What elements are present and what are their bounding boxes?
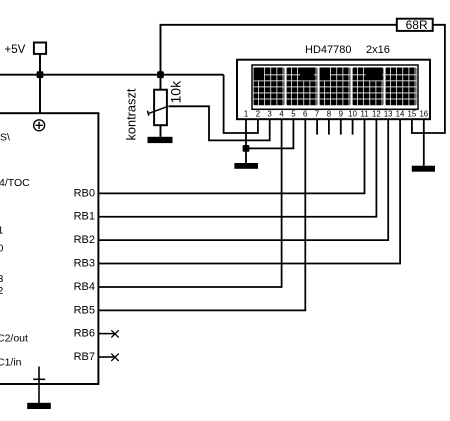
svg-text:HD47780: HD47780 bbox=[305, 44, 351, 56]
svg-text:RB3: RB3 bbox=[74, 257, 95, 269]
LCD inner display frame bbox=[252, 65, 418, 109]
svg-text:RB0: RB0 bbox=[74, 187, 95, 199]
chip power pin circle-plus symbol bbox=[34, 120, 45, 131]
wire +5V box down to chip Vdd bbox=[39, 54, 41, 113]
ground below chip bbox=[27, 403, 51, 409]
power symbol +5V box bbox=[34, 43, 46, 54]
chip Vss pin stem and bar bbox=[33, 367, 45, 404]
svg-text:RB1: RB1 bbox=[74, 211, 95, 223]
wire RB3 to LCD pin 14 bbox=[99, 119, 400, 263]
potentiometer P1 10k bbox=[147, 75, 167, 137]
svg-text:RB6: RB6 bbox=[74, 328, 95, 340]
wire 68R to LCD pin 15 bbox=[412, 25, 445, 133]
junction on rail at pot top bbox=[157, 71, 164, 78]
microcontroller U1 box bbox=[0, 113, 98, 384]
svg-text:2x16: 2x16 bbox=[366, 44, 390, 56]
svg-text:9: 9 bbox=[339, 110, 343, 119]
svg-text:11: 11 bbox=[360, 110, 368, 119]
svg-text:C2/out: C2/out bbox=[0, 333, 28, 345]
svg-text:10k: 10k bbox=[168, 80, 184, 104]
svg-text:RB2: RB2 bbox=[74, 234, 95, 246]
wire pot wiper to LCD pin 3 bbox=[168, 106, 269, 140]
junction on rail at x=40 bbox=[37, 71, 44, 78]
svg-text:4: 4 bbox=[279, 110, 284, 119]
LCD pin numbers 1-16 bbox=[244, 110, 428, 119]
svg-text:12: 12 bbox=[372, 110, 381, 119]
RB6 unconnected stub bbox=[99, 330, 119, 337]
wire RB1 to LCD pin 12 bbox=[99, 119, 376, 217]
svg-text:10: 10 bbox=[348, 110, 357, 119]
svg-text:3: 3 bbox=[0, 273, 4, 285]
LCD display dark character cells bbox=[254, 68, 417, 106]
svg-text:kontraszt: kontraszt bbox=[124, 88, 139, 140]
svg-text:5: 5 bbox=[291, 110, 296, 119]
svg-text:1: 1 bbox=[0, 225, 4, 237]
RB7 unconnected stub bbox=[99, 354, 119, 361]
LCD module U2 outer box bbox=[237, 60, 430, 119]
svg-text:15: 15 bbox=[408, 110, 417, 119]
resistor R1 68R bbox=[397, 18, 433, 32]
chip left pin labels bbox=[0, 131, 30, 368]
svg-text:7: 7 bbox=[315, 110, 319, 119]
svg-text:+5V: +5V bbox=[5, 44, 26, 56]
ground below pot bbox=[148, 137, 173, 143]
wire LCD pin 5 to pin 1 ground junction bbox=[246, 119, 293, 148]
svg-text:1: 1 bbox=[244, 110, 248, 119]
wire RB5 to LCD pin 6 bbox=[99, 119, 305, 310]
wire RB4 to LCD pin 4 bbox=[99, 119, 282, 287]
svg-text:RB4: RB4 bbox=[74, 281, 95, 293]
wire RB2 to LCD pin 13 bbox=[99, 119, 388, 240]
wire LCD pin 16 to ground bbox=[423, 119, 425, 166]
svg-text:68R: 68R bbox=[406, 18, 428, 32]
svg-text:3: 3 bbox=[268, 110, 272, 119]
svg-text:RB7: RB7 bbox=[74, 351, 95, 363]
svg-text:2: 2 bbox=[0, 285, 4, 297]
svg-text:2: 2 bbox=[256, 110, 260, 119]
svg-text:C1/in: C1/in bbox=[0, 357, 22, 369]
wire RB0 to LCD pin 11 bbox=[99, 119, 365, 193]
chip RB0-RB7 port labels bbox=[74, 187, 95, 363]
svg-text:4/TOC: 4/TOC bbox=[0, 177, 30, 189]
svg-text:0: 0 bbox=[0, 243, 4, 255]
ground below LCD pin 1 bbox=[234, 163, 258, 169]
junction pin1/pin5 bbox=[243, 145, 250, 152]
wire rail to LCD pin 2 bbox=[224, 75, 258, 133]
ground below LCD pin 16 bbox=[412, 166, 435, 172]
svg-text:13: 13 bbox=[384, 110, 393, 119]
LCD unconnected pin stubs 7-10 bbox=[317, 119, 353, 134]
svg-text:6: 6 bbox=[303, 110, 307, 119]
svg-text:8: 8 bbox=[327, 110, 331, 119]
wire +5V rail bbox=[0, 74, 224, 76]
svg-text:14: 14 bbox=[396, 110, 405, 119]
svg-text:RB5: RB5 bbox=[74, 304, 95, 316]
wire rail up to resistor 68R bbox=[161, 25, 397, 75]
svg-text:16: 16 bbox=[419, 110, 428, 119]
wire LCD pin 1 to ground bbox=[245, 119, 247, 163]
svg-text:S\: S\ bbox=[0, 131, 10, 143]
